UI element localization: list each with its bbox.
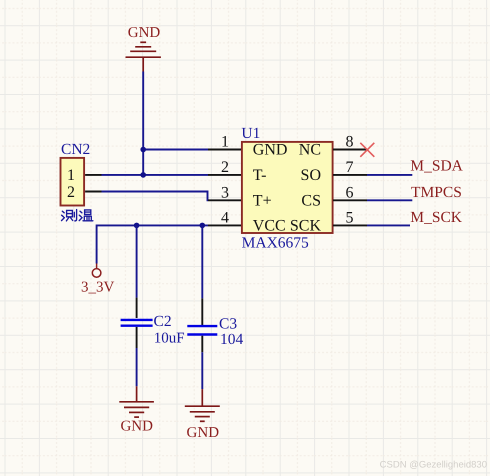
- svg-text:7: 7: [346, 159, 354, 176]
- U1 pin 6 stub: [333, 199, 367, 201]
- svg-text:TMPCS: TMPCS: [411, 184, 462, 201]
- wire pin2 row: [102, 174, 209, 176]
- svg-text:5: 5: [346, 210, 354, 227]
- svg-text:8: 8: [346, 134, 354, 151]
- svg-text:GND: GND: [128, 25, 161, 41]
- ground GND (left): [119, 386, 154, 417]
- wire SO to M_SDA: [367, 174, 412, 176]
- svg-text:MAX6675: MAX6675: [242, 234, 309, 251]
- svg-text:CN2: CN2: [61, 141, 90, 158]
- wire pin1 row: [143, 149, 208, 151]
- svg-text:4: 4: [221, 210, 229, 227]
- svg-text:2: 2: [67, 184, 75, 201]
- junction at GND wire / pin1 wire: [140, 147, 146, 153]
- capacitor C2 plates: [121, 320, 153, 326]
- capacitor C2 pin top: [136, 298, 138, 318]
- wire VCC to C2: [136, 225, 138, 297]
- svg-text:NC: NC: [299, 142, 321, 159]
- svg-text:C2: C2: [154, 313, 172, 330]
- wire C3 to GND: [201, 352, 203, 389]
- wire SCK to M_SCK: [367, 224, 410, 226]
- svg-text:SCK: SCK: [290, 218, 322, 235]
- svg-text:VCC: VCC: [253, 218, 286, 235]
- U1 pin 4 stub: [208, 224, 241, 226]
- wire C2 to GND: [136, 348, 138, 386]
- capacitor C2 pin bottom: [136, 327, 138, 348]
- svg-text:CSDN @Gezelligheid830: CSDN @Gezelligheid830: [380, 459, 487, 470]
- svg-text:M_SDA: M_SDA: [410, 157, 463, 174]
- svg-text:1: 1: [221, 134, 229, 151]
- svg-text:CS: CS: [301, 192, 321, 209]
- svg-text:GND: GND: [120, 419, 153, 435]
- CN2 pin 1 stub: [85, 174, 101, 176]
- svg-text:104: 104: [220, 331, 244, 348]
- ground GND (right): [185, 389, 220, 421]
- capacitor C3 pin bottom: [201, 336, 203, 353]
- IC U1 body: [242, 142, 333, 233]
- U1 pin 1 stub: [208, 149, 241, 151]
- svg-text:6: 6: [346, 184, 354, 201]
- svg-text:M_SCK: M_SCK: [410, 209, 462, 226]
- wire from top GND down: [142, 72, 144, 176]
- no-connect X on pin 8: [360, 143, 374, 157]
- connector CN2: [61, 158, 85, 206]
- wire CN2 pin2 to T+: [102, 192, 209, 201]
- svg-text:1: 1: [67, 167, 75, 184]
- label 测温 (SVG glyphs): [62, 210, 93, 221]
- svg-text:GND: GND: [253, 142, 288, 159]
- svg-text:U1: U1: [241, 125, 260, 142]
- power symbol GND (top): [126, 42, 161, 71]
- U1 pin 8 stub: [333, 149, 367, 151]
- svg-text:T-: T-: [253, 167, 267, 184]
- CN2 pin 2 stub: [85, 191, 101, 193]
- svg-text:3: 3: [221, 184, 229, 201]
- svg-text:GND: GND: [187, 425, 220, 441]
- junction VCC / C2: [134, 223, 140, 229]
- junction at GND wire / pin2 wire: [140, 172, 146, 178]
- svg-text:3_3V: 3_3V: [81, 280, 115, 296]
- wire VCC row: [97, 225, 208, 263]
- U1 pin 2 stub: [208, 174, 241, 176]
- wire CS to TMPCS: [367, 199, 412, 201]
- power symbol 3_3V: [92, 264, 101, 278]
- capacitor C3 plates: [187, 326, 217, 334]
- U1 pin 5 stub: [333, 224, 367, 226]
- svg-text:10uF: 10uF: [154, 330, 185, 346]
- svg-text:2: 2: [221, 159, 229, 176]
- capacitor C3 pin top: [201, 298, 203, 326]
- wire VCC to C3: [201, 225, 203, 298]
- junction VCC / C3: [200, 223, 206, 229]
- svg-text:SO: SO: [301, 167, 321, 184]
- svg-text:T+: T+: [253, 192, 272, 209]
- U1 pin 3 stub: [208, 199, 241, 201]
- U1 pin 7 stub: [333, 174, 367, 176]
